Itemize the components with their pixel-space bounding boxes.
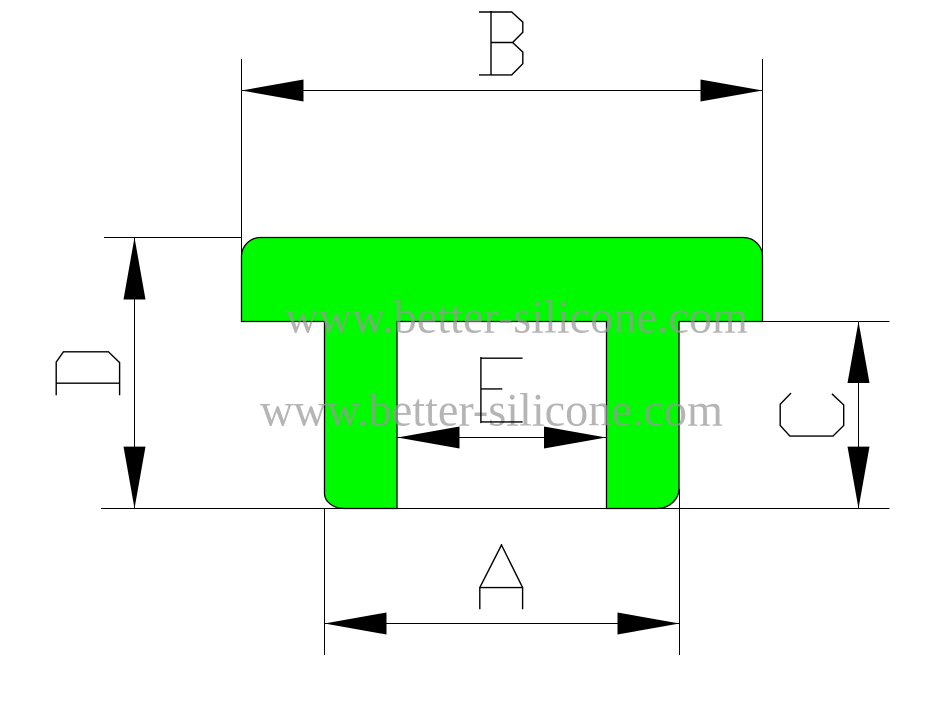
svg-text:www.better-silicone.com: www.better-silicone.com: [285, 292, 748, 343]
svg-text:www.better-silicone.com: www.better-silicone.com: [260, 385, 723, 436]
